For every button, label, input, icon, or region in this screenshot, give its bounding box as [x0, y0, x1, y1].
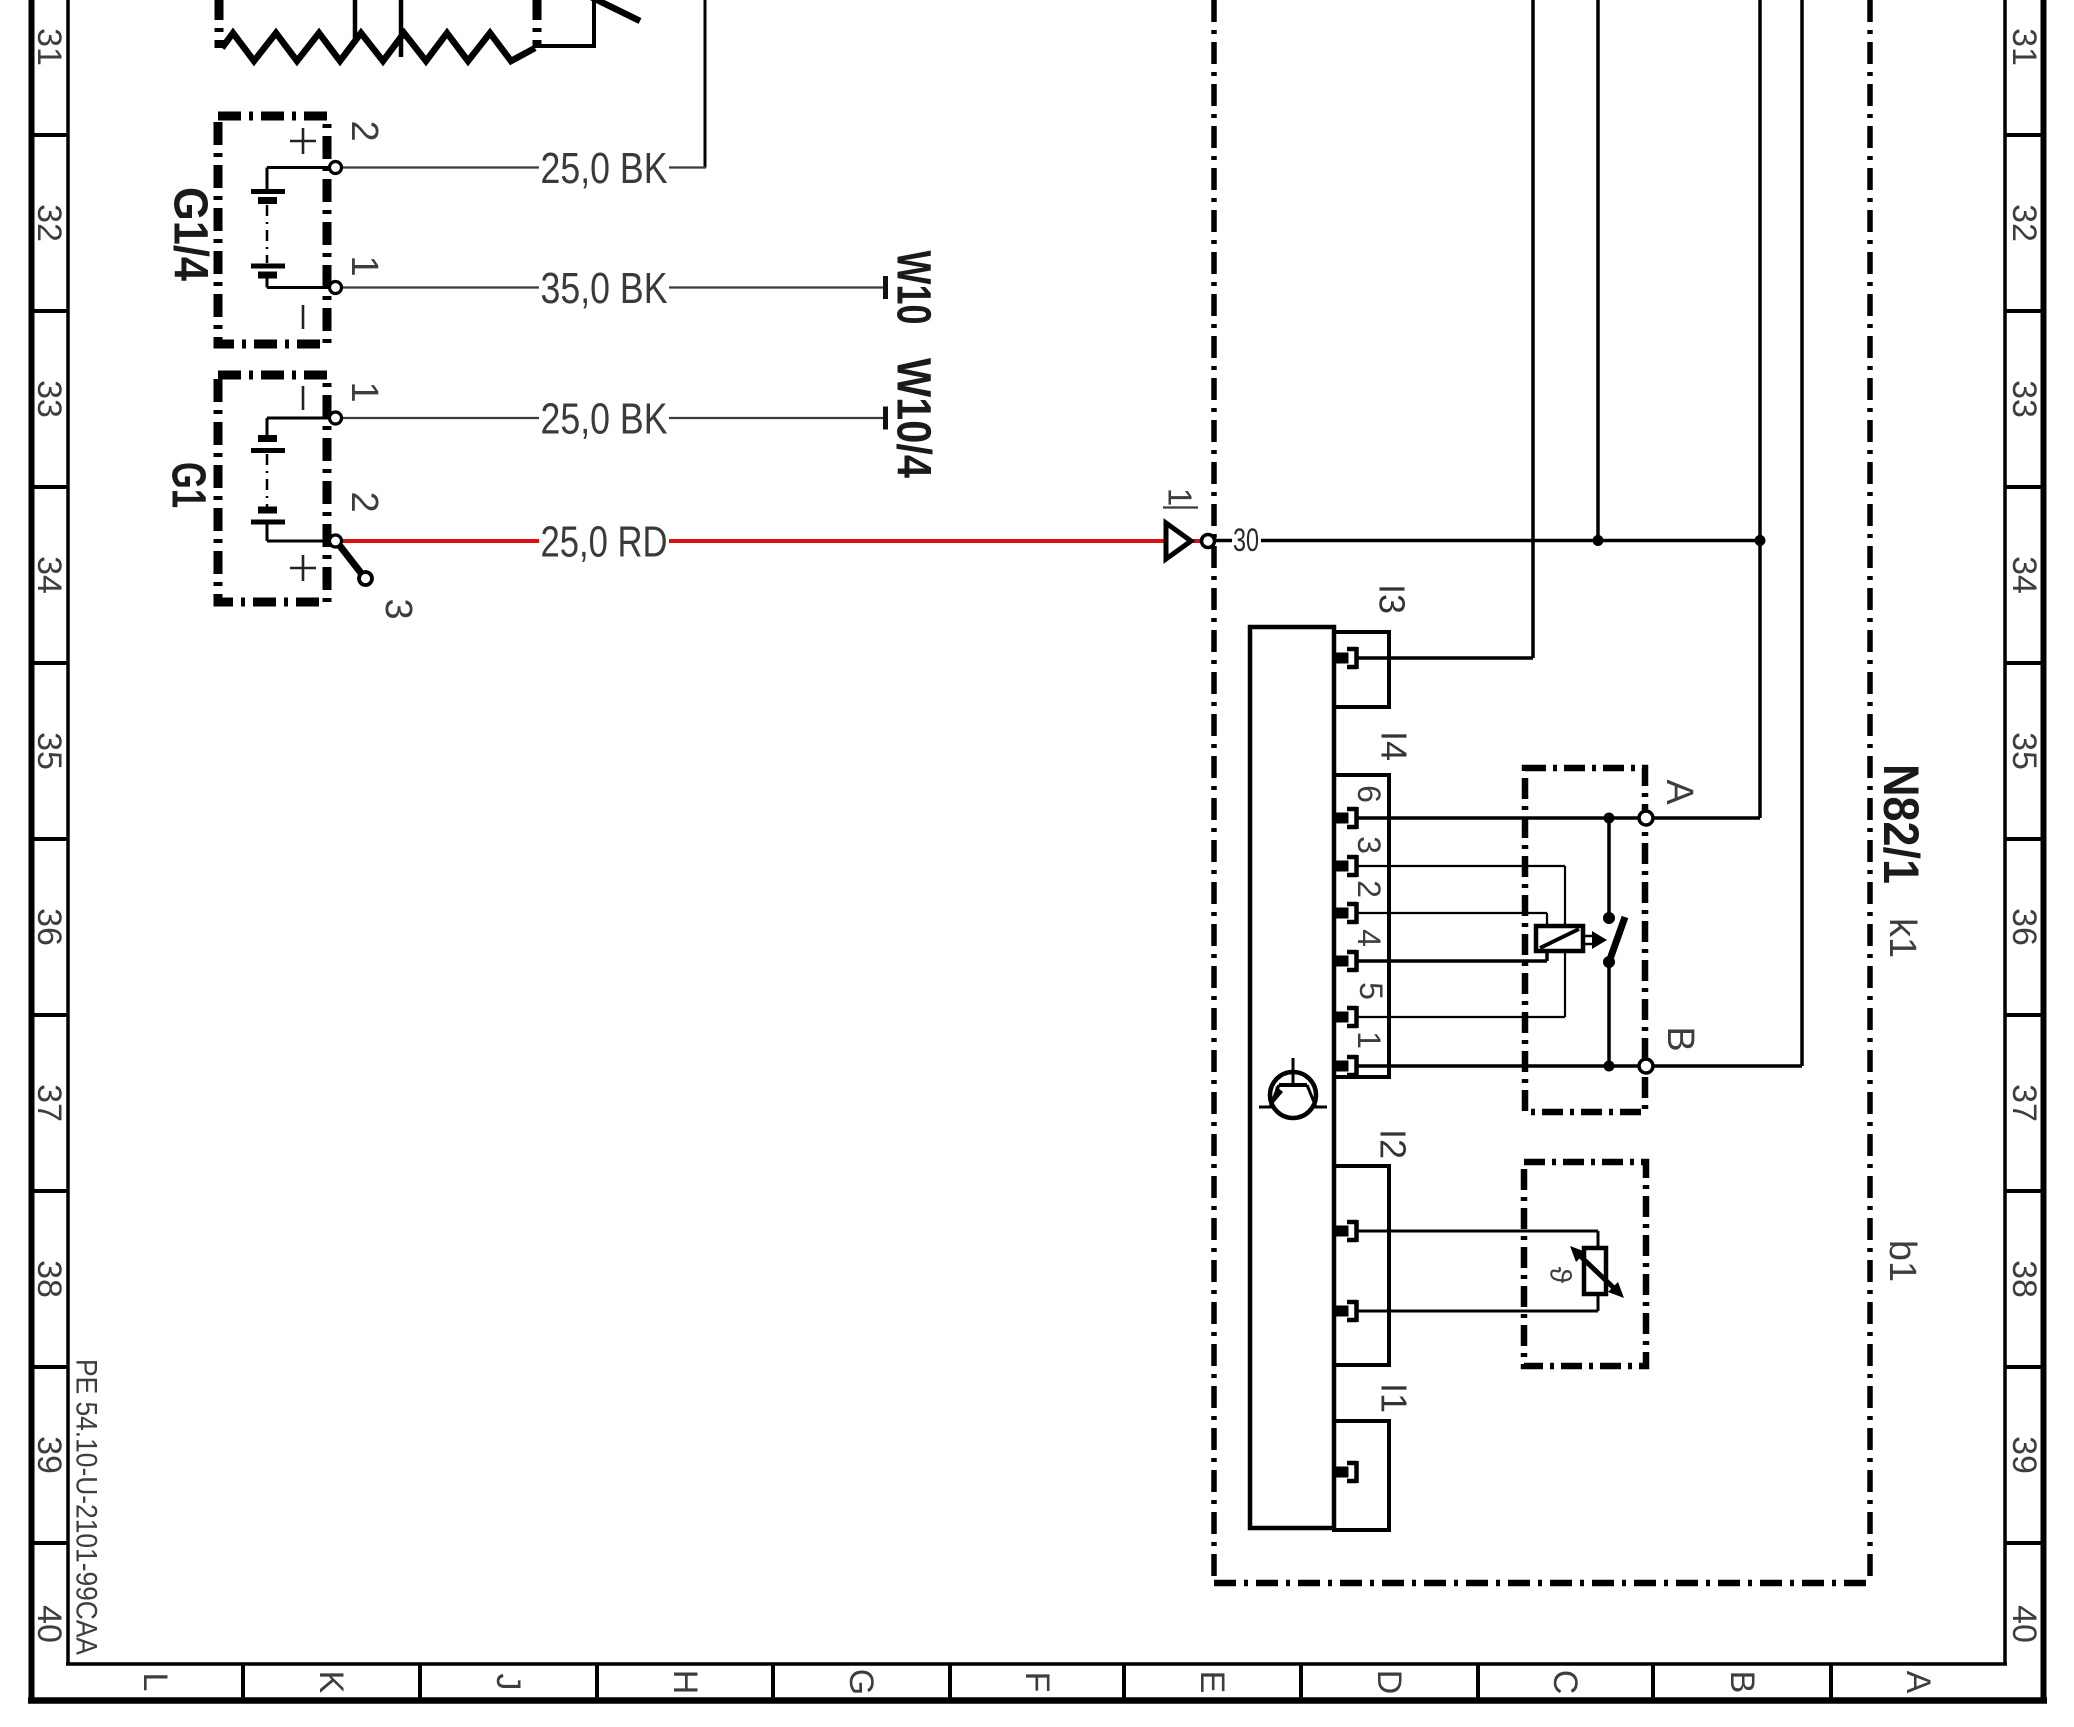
svg-text:35,0 BK: 35,0 BK	[541, 264, 668, 313]
svg-text:25,0 BK: 25,0 BK	[541, 144, 668, 193]
svg-text:3: 3	[1351, 836, 1387, 854]
svg-text:25,0 RD: 25,0 RD	[541, 518, 668, 567]
svg-text:F: F	[1018, 1672, 1056, 1693]
svg-text:1: 1	[343, 255, 385, 276]
svg-text:39: 39	[2005, 1436, 2043, 1474]
svg-text:35: 35	[2005, 732, 2043, 770]
svg-text:I3: I3	[1372, 584, 1413, 614]
svg-text:30: 30	[1233, 522, 1259, 558]
svg-text:2: 2	[343, 120, 385, 141]
svg-text:38: 38	[2005, 1260, 2043, 1298]
svg-text:I1: I1	[1374, 1383, 1415, 1413]
svg-text:40: 40	[2005, 1605, 2043, 1643]
svg-text:2: 2	[343, 491, 385, 512]
svg-text:40: 40	[30, 1605, 68, 1643]
svg-text:1: 1	[1162, 488, 1199, 506]
svg-text:25,0 BK: 25,0 BK	[541, 395, 668, 444]
svg-text:E: E	[1193, 1671, 1231, 1694]
svg-text:A: A	[1899, 1671, 1937, 1694]
svg-text:PE 54.10-U-2101-99CAA: PE 54.10-U-2101-99CAA	[70, 1359, 103, 1655]
svg-text:K: K	[312, 1671, 350, 1694]
svg-text:6: 6	[1351, 785, 1387, 803]
svg-text:k1: k1	[1881, 918, 1923, 958]
svg-text:34: 34	[2005, 556, 2043, 594]
svg-text:3: 3	[377, 598, 419, 619]
svg-text:39: 39	[30, 1436, 68, 1474]
svg-text:31: 31	[2005, 28, 2043, 66]
svg-text:1: 1	[343, 381, 385, 402]
svg-text:I2: I2	[1373, 1129, 1414, 1159]
svg-text:37: 37	[2005, 1084, 2043, 1122]
svg-text:W10: W10	[887, 251, 940, 325]
svg-text:33: 33	[30, 380, 68, 418]
svg-text:36: 36	[30, 908, 68, 946]
svg-text:b1: b1	[1881, 1240, 1923, 1282]
svg-text:2: 2	[1351, 880, 1387, 898]
svg-text:W10/4: W10/4	[887, 358, 940, 478]
svg-text:C: C	[1546, 1670, 1584, 1695]
svg-text:36: 36	[2005, 908, 2043, 946]
svg-text:D: D	[1370, 1670, 1408, 1695]
svg-text:L: L	[136, 1673, 174, 1692]
svg-text:B: B	[1659, 1026, 1701, 1051]
svg-text:G1/4: G1/4	[164, 187, 217, 281]
svg-text:A: A	[1658, 779, 1700, 805]
svg-text:31: 31	[30, 28, 68, 66]
svg-text:32: 32	[2005, 204, 2043, 242]
svg-text:5: 5	[1353, 982, 1389, 1000]
svg-text:H: H	[666, 1670, 704, 1695]
svg-text:1: 1	[1351, 1031, 1387, 1049]
svg-text:4: 4	[1351, 929, 1387, 947]
svg-text:N82/1: N82/1	[1873, 764, 1929, 884]
svg-text:38: 38	[30, 1260, 68, 1298]
svg-text:B: B	[1723, 1671, 1761, 1694]
svg-text:G: G	[842, 1669, 880, 1695]
svg-text:G1: G1	[162, 462, 215, 508]
svg-text:34: 34	[30, 556, 68, 594]
svg-text:ϑ: ϑ	[1544, 1267, 1577, 1284]
svg-text:32: 32	[30, 204, 68, 242]
svg-text:I4: I4	[1374, 731, 1415, 761]
svg-text:J: J	[489, 1674, 527, 1691]
svg-text:37: 37	[30, 1084, 68, 1122]
svg-text:33: 33	[2005, 380, 2043, 418]
svg-text:35: 35	[30, 732, 68, 770]
